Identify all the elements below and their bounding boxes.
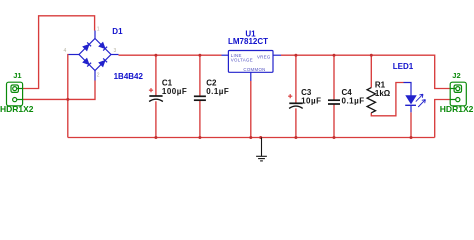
junction C2 ground rail — [198, 136, 201, 139]
wire C3 branch — [295, 55, 297, 137]
svg-text:3: 3 — [114, 48, 117, 54]
voltage regulator U1 box — [228, 51, 273, 73]
junction C4 ground rail — [333, 136, 336, 139]
svg-text:1kΩ: 1kΩ — [375, 89, 391, 98]
wire top rail bridge to U1 input — [119, 54, 222, 56]
bridge rectifier D1 — [69, 31, 119, 81]
U1 input pin stub — [222, 54, 229, 56]
junction R1 top rail — [370, 54, 373, 57]
ground — [256, 138, 267, 161]
junction U1 common ground rail — [249, 136, 252, 139]
capacitor C1 — [149, 96, 163, 102]
wire J1 pin1 to bridge top — [23, 16, 95, 89]
svg-text:1: 1 — [97, 26, 100, 32]
svg-text:VOLTAGE: VOLTAGE — [231, 57, 253, 62]
wire R1 branch top — [370, 55, 372, 87]
wire LED cathode to ground rail — [410, 112, 412, 137]
connector J1 — [7, 82, 23, 106]
svg-text:4: 4 — [64, 48, 67, 54]
capacitor C4 — [328, 100, 340, 104]
junction C4 top rail — [333, 54, 336, 57]
junction LED1 ground rail — [410, 136, 413, 139]
wire C4 branch — [333, 55, 335, 137]
capacitor C2 — [194, 96, 206, 100]
wire U1 common to ground rail — [250, 81, 252, 138]
svg-text:HDR1X2: HDR1X2 — [440, 104, 474, 114]
C1 plus sign — [149, 88, 153, 92]
junction C1 top rail — [154, 54, 157, 57]
junction C3 top rail — [294, 54, 297, 57]
LED1 — [404, 83, 426, 113]
junction C2 top rail — [198, 54, 201, 57]
U1 common pin stub — [250, 72, 252, 81]
svg-text:J1: J1 — [13, 71, 21, 80]
wire J2 pin2 to ground rail — [435, 100, 451, 138]
svg-text:10µF: 10µF — [301, 97, 321, 106]
wire bridge left vertex down to ground rail — [67, 55, 70, 138]
svg-text:J2: J2 — [452, 71, 460, 80]
svg-text:0.1µF: 0.1µF — [342, 97, 365, 106]
wire J1 pin2 to bridge bottom — [23, 81, 95, 100]
svg-text:D1: D1 — [112, 27, 123, 36]
resistor R1 — [367, 88, 375, 113]
svg-text:0.1µF: 0.1µF — [206, 87, 229, 96]
connector J2 — [450, 82, 466, 106]
bridge diode SE — [99, 58, 107, 66]
wire U1 output rail — [281, 55, 450, 88]
svg-text:LED1: LED1 — [393, 62, 414, 71]
wire C1 branch — [155, 55, 157, 137]
wire C2 branch — [199, 55, 201, 137]
bridge diode SW — [83, 58, 91, 66]
junction C1 ground rail — [154, 136, 157, 139]
junction J1 pin2 / bridge AC2 — [66, 98, 69, 101]
wire R1 bottom to LED anode — [371, 83, 403, 116]
junction ground symbol — [259, 136, 262, 139]
C3 plus sign — [288, 94, 292, 98]
junction C3 ground rail — [294, 136, 297, 139]
svg-text:COMMON: COMMON — [243, 67, 265, 72]
svg-text:VREG: VREG — [257, 54, 271, 59]
bridge diode NE — [99, 42, 107, 50]
bridge diode NW — [83, 42, 91, 50]
svg-text:HDR1X2: HDR1X2 — [0, 104, 34, 114]
svg-text:2: 2 — [97, 72, 100, 78]
wire bottom ground rail — [68, 137, 435, 139]
capacitor C3 — [289, 103, 303, 108]
U1 output pin stub — [273, 54, 281, 56]
svg-text:100µF: 100µF — [162, 87, 187, 96]
svg-text:LM7812CT: LM7812CT — [228, 37, 268, 46]
svg-text:1B4B42: 1B4B42 — [114, 72, 144, 81]
